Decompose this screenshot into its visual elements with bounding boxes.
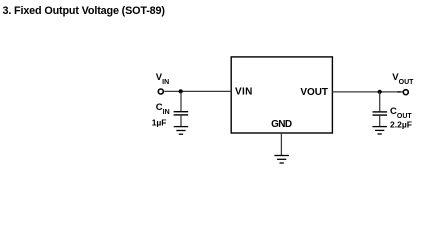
wire junction down to C_OUT [379,92,381,112]
capacitor C1 (CIN) plates [174,112,189,115]
wire input terminal to IC VIN pin [164,90,231,92]
svg-text:CIN: CIN [156,102,170,116]
capacitor C2 (COUT) plates [373,112,388,115]
svg-text:VOUT: VOUT [300,87,328,98]
junction input node [179,89,183,93]
wire junction down to C_IN [180,91,182,111]
ground (under CIN) [174,127,189,135]
wire IC GND pin down [280,133,282,155]
wire C_IN to ground [180,115,182,127]
wire IC VOUT pin to output terminal [332,91,403,93]
node VOUT terminal [403,90,408,95]
svg-text:VIN: VIN [156,72,169,86]
ground (under COUT) [372,127,387,134]
svg-text:2.2µF: 2.2µF [390,119,412,129]
junction output node [378,90,382,94]
node VIN terminal [158,89,163,94]
svg-text:VOUT: VOUT [392,72,414,86]
wire C_OUT to ground [379,115,381,126]
svg-text:VIN: VIN [235,87,252,98]
ground (under IC) [274,156,289,164]
svg-text:GND: GND [271,119,292,130]
regulator IC U1 body [231,57,332,133]
wire overlap segment at output terminal [398,91,401,93]
svg-text:3. Fixed Output Voltage (SOT-8: 3. Fixed Output Voltage (SOT-89) [3,5,166,17]
svg-text:1µF: 1µF [152,118,167,128]
svg-text:COUT: COUT [390,106,412,120]
